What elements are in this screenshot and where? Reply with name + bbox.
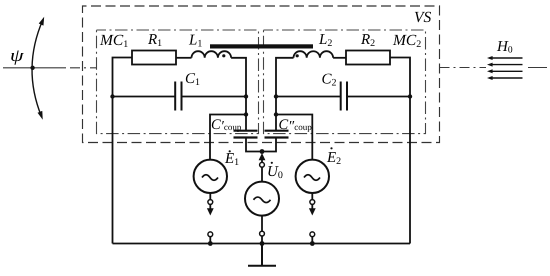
U0 lower stem (261, 216, 263, 232)
E2 lower stem (311, 193, 313, 200)
U0 label (267, 162, 283, 181)
wire C1 left (113, 96, 176, 98)
wire L1 right down (231, 58, 246, 130)
node U0 rail (260, 241, 265, 246)
U0 upper stem (261, 167, 263, 182)
MC2 box (264, 30, 426, 134)
node right C2 (408, 94, 412, 98)
transformer core (210, 44, 313, 48)
node E2 rail (310, 241, 315, 246)
wire L2 left down (276, 58, 294, 130)
wire branch to E2 (276, 115, 312, 161)
wire C2 left (276, 96, 341, 98)
wire branch to E1 (210, 115, 246, 161)
resistor R2 (346, 51, 390, 65)
E2 terminal circle (310, 200, 315, 205)
ground (248, 244, 276, 266)
wire C1 right (182, 96, 247, 98)
capacitor C2 (341, 82, 347, 111)
source U0 (245, 182, 279, 216)
E1 label (224, 150, 239, 168)
wire top-right (390, 58, 410, 244)
node branch E2 (274, 112, 278, 116)
MC1 box (97, 30, 259, 134)
L1 polarity dot (222, 54, 225, 57)
H0 field arrows (487, 56, 523, 80)
E1 terminal circle (208, 200, 213, 205)
L2 polarity dot (296, 54, 299, 57)
E1 arrow down (207, 204, 214, 215)
E2 label (326, 147, 341, 167)
wire R1 to L1 (176, 57, 192, 59)
U0 arrow up (259, 153, 266, 162)
capacitor C''coup (265, 131, 289, 138)
wire C'coup bottom (246, 138, 276, 152)
wire C2 right (347, 96, 410, 98)
svg-text:ψ: ψ (10, 45, 25, 65)
U0 terminal circle (260, 162, 265, 167)
E1 lower stem (209, 193, 211, 200)
node left C1 (110, 94, 114, 98)
wire L2 to R2 (333, 57, 346, 59)
node on psi axis (30, 66, 34, 70)
node branch E1 (244, 112, 248, 116)
source E1 (194, 160, 227, 193)
E2 arrow down (309, 204, 316, 215)
node E1 rail (208, 241, 213, 246)
svg-text:VS: VS (414, 9, 431, 26)
node left C2 (274, 94, 278, 98)
capacitor C'coup (234, 131, 258, 138)
node right C1 (244, 94, 248, 98)
VS box (83, 6, 440, 143)
E1 bottom terminal (208, 232, 213, 244)
capacitor C1 (175, 82, 181, 111)
resistor R1 (132, 51, 176, 65)
psi rotation arrow (32, 18, 44, 119)
axis line left (3, 67, 96, 69)
bottom rail wire (113, 243, 411, 245)
wire top-left (113, 58, 133, 244)
E2 bottom terminal (310, 232, 315, 244)
inductor L2 (294, 51, 334, 58)
node U0 top (260, 149, 265, 154)
U0 bottom terminal (260, 231, 265, 243)
axis line right (440, 67, 550, 69)
inductor L1 (192, 51, 232, 58)
source E2 (296, 160, 329, 193)
